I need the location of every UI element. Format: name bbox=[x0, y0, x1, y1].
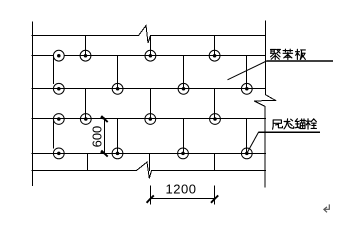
svg-text:600: 600 bbox=[89, 126, 104, 148]
svg-text:1200: 1200 bbox=[166, 182, 197, 197]
